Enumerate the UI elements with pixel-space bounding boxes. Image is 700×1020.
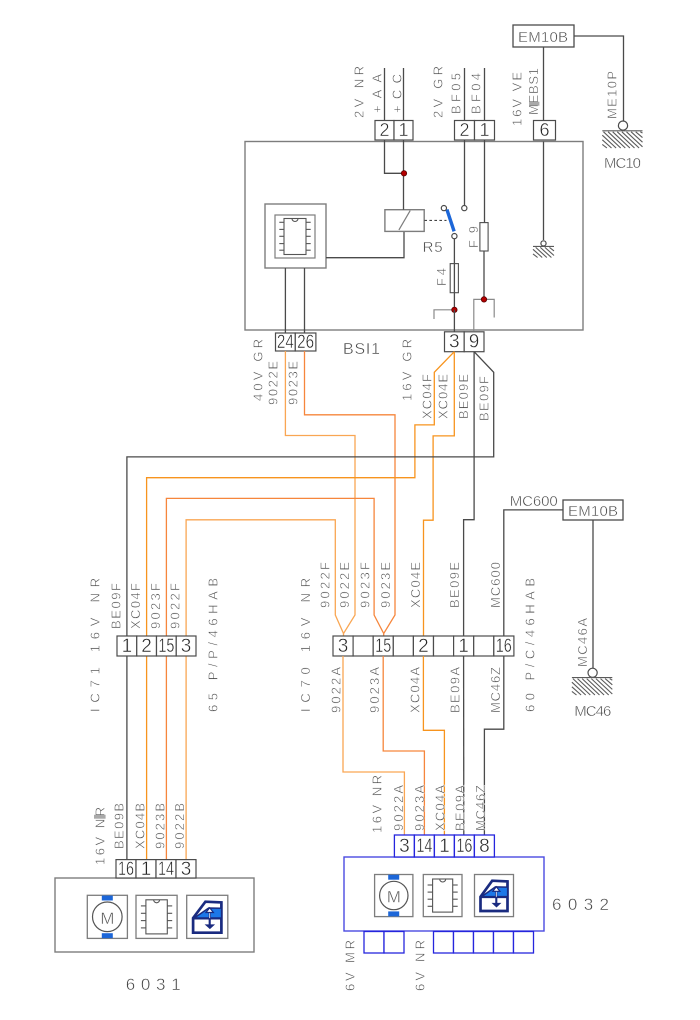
window-lift module 6031 box: [55, 878, 254, 952]
bridge link at F9 node: [474, 299, 494, 331]
BSI pin 26 box: [295, 333, 316, 351]
svg-text:15: 15: [158, 636, 174, 657]
motor icon (6032): [375, 875, 413, 917]
svg-text:9023F: 9023F: [358, 562, 373, 608]
switch R5 contact left: [441, 206, 446, 211]
wire stub +CC: [403, 68, 405, 121]
switch R5 contact bottom: [452, 234, 457, 239]
svg-text:9023E: 9023E: [378, 562, 393, 608]
svg-text:8: 8: [479, 836, 490, 857]
svg-text:15: 15: [375, 636, 391, 657]
wire MC46A: [592, 520, 594, 669]
wire stub BF05: [464, 68, 466, 121]
svg-text:XC04A: XC04A: [433, 785, 448, 831]
svg-text:9022F: 9022F: [168, 583, 183, 629]
wire ME10P: [574, 36, 624, 121]
wire F9 to node: [483, 251, 485, 299]
BSI pin 3 box: [445, 332, 465, 352]
svg-text:XC04E: XC04E: [436, 374, 451, 419]
svg-text:R5: R5: [423, 239, 443, 256]
wire 9023E: [305, 351, 396, 636]
wire MEBS1 to EM10B: [543, 47, 545, 121]
svg-text:9022A: 9022A: [329, 667, 344, 713]
svg-text:BE09E: BE09E: [456, 374, 471, 419]
svg-text:6 0 3 1: 6 0 3 1: [126, 975, 181, 994]
svg-text:16: 16: [496, 636, 512, 657]
svg-text:9022E: 9022E: [337, 562, 352, 608]
svg-text:9023A: 9023A: [412, 785, 427, 831]
window-lift module 6032 box: [344, 857, 544, 931]
svg-text:MEBS1: MEBS1: [526, 68, 541, 115]
ground eyelet internal: [541, 241, 546, 246]
wire XC04A: [423, 656, 444, 835]
ground MC46: [572, 678, 612, 695]
svg-text:EM10B: EM10B: [568, 503, 618, 520]
svg-text:16: 16: [118, 859, 134, 880]
connector 6032 lower tabs group 1: [364, 932, 404, 954]
BSI pin 24 box: [276, 333, 296, 351]
svg-text:XC04B: XC04B: [132, 803, 147, 849]
wire BF05 to switch: [464, 140, 466, 205]
svg-text:1: 1: [458, 636, 469, 657]
wire stub +AA: [384, 68, 386, 121]
svg-text:9022F: 9022F: [318, 562, 333, 608]
ground eyelet MC10: [618, 121, 627, 130]
svg-text:BSI1: BSI1: [343, 341, 380, 358]
junction node F9: [481, 297, 486, 302]
svg-text:9022B: 9022B: [172, 803, 187, 849]
svg-text:9: 9: [469, 332, 480, 353]
svg-text:BE09A: BE09A: [453, 785, 468, 831]
fuse F9: [480, 223, 488, 251]
svg-text:9023B: 9023B: [152, 803, 167, 849]
switch R5 blue bar: [447, 210, 454, 232]
scan artifact near 16V NR (6031): [94, 815, 106, 819]
wire XC04B: [146, 656, 148, 860]
electronics icon (6032): [423, 875, 462, 917]
connector 6032 pins body: [394, 835, 494, 857]
wire 9022A: [343, 656, 404, 835]
wire BE09A: [463, 656, 465, 835]
svg-text:1: 1: [122, 636, 133, 657]
BSI internal IC DIP package: [279, 219, 310, 255]
svg-text:16: 16: [456, 836, 472, 857]
splice EM10B: [513, 25, 574, 47]
svg-text:6 0 3 2: 6 0 3 2: [552, 895, 609, 914]
switch R5 contact right: [462, 206, 467, 211]
connector IC70 body: [333, 636, 514, 656]
wire XC04F: [147, 352, 455, 636]
wire 9023A: [383, 656, 424, 835]
svg-text:MC10: MC10: [604, 155, 641, 172]
svg-text:BE09F: BE09F: [477, 376, 492, 421]
window-lift icon (6031): [187, 895, 228, 938]
svg-text:1: 1: [398, 120, 408, 140]
svg-text:BE09F: BE09F: [109, 583, 124, 629]
window-lift icon (6032): [475, 875, 514, 917]
wire MC600: [504, 510, 563, 636]
svg-text:MC46A: MC46A: [575, 618, 590, 667]
svg-text:6: 6: [539, 120, 549, 140]
ground MEBS1 internal: [533, 246, 554, 257]
svg-text:MC46Z: MC46Z: [488, 667, 503, 713]
junction node relay feed: [401, 171, 406, 176]
svg-text:XC04F: XC04F: [420, 374, 435, 419]
svg-text:2: 2: [379, 120, 389, 140]
svg-text:+AA: +AA: [370, 74, 385, 113]
relay R5 coil diagonal: [399, 211, 410, 230]
wire BE09B: [126, 656, 128, 860]
svg-text:XC04A: XC04A: [408, 667, 423, 713]
bracket link at F4 node: [434, 310, 453, 319]
svg-text:XC04F: XC04F: [128, 583, 143, 629]
svg-text:24: 24: [277, 332, 294, 353]
svg-text:M: M: [100, 909, 114, 928]
svg-text:BE09B: BE09B: [112, 803, 127, 849]
svg-text:9023E: 9023E: [286, 361, 301, 405]
svg-text:14: 14: [158, 859, 174, 880]
svg-text:MC46Z: MC46Z: [473, 785, 488, 831]
svg-text:1: 1: [439, 836, 450, 857]
relay-switch link (dashed): [424, 219, 446, 221]
connector pin 6 (MEBS1): [534, 121, 556, 141]
junction node F4: [452, 307, 457, 312]
svg-text:26: 26: [297, 332, 314, 353]
connector IC71 body: [117, 636, 196, 656]
motor icon (6031): [87, 895, 127, 938]
wire BF04 to F9: [484, 140, 486, 223]
svg-text:EM10B: EM10B: [518, 29, 568, 46]
ground eyelet MC46: [588, 668, 597, 677]
electronics icon (6031): [136, 895, 177, 938]
svg-text:MC600: MC600: [510, 493, 558, 510]
wire 9022E: [285, 351, 355, 636]
relay R5 coil: [385, 210, 424, 232]
svg-text:M: M: [387, 888, 401, 907]
svg-text:1: 1: [141, 859, 152, 880]
wire +CC to relay: [403, 140, 405, 210]
svg-text:3: 3: [399, 836, 410, 857]
svg-text:9022A: 9022A: [391, 785, 406, 831]
svg-text:MC46: MC46: [574, 703, 611, 720]
connector pin 2 (+AA): [375, 121, 394, 141]
svg-text:9023F: 9023F: [148, 583, 163, 629]
wire IC to pin 24: [284, 268, 286, 333]
svg-text:2: 2: [459, 120, 469, 140]
BSI pin 9 box: [464, 332, 484, 352]
connector pin 1 (BF04): [475, 121, 495, 141]
wire F4 to pin 3: [453, 310, 455, 332]
svg-text:1: 1: [479, 120, 489, 140]
connector 6031 pins body: [116, 860, 196, 878]
wire 9023F: [166, 498, 383, 636]
ground MC10: [602, 131, 642, 148]
svg-text:9022E: 9022E: [266, 361, 281, 405]
fuse F4: [450, 264, 458, 293]
svg-text:3: 3: [449, 332, 460, 353]
svg-text:2: 2: [418, 636, 429, 657]
svg-text:BE09E: BE09E: [447, 562, 462, 608]
svg-text:+CC: +CC: [390, 74, 405, 113]
connector 6032 lower tabs group 2: [434, 932, 534, 954]
wire 9022F: [186, 520, 343, 636]
wire BE09E: [464, 352, 475, 636]
connector pin 1 (+CC): [394, 121, 413, 141]
svg-text:ME10P: ME10P: [605, 71, 620, 119]
wire stub BF04: [484, 68, 486, 121]
wire 9022B: [185, 656, 187, 860]
svg-text:BE09A: BE09A: [448, 667, 463, 713]
svg-text:3: 3: [181, 636, 192, 657]
svg-text:3: 3: [181, 859, 192, 880]
wire BE09F: [127, 352, 494, 636]
wire IC to relay: [326, 231, 404, 257]
BSI internal IC inner box: [275, 215, 315, 258]
wire XC04E: [424, 352, 455, 636]
svg-text:2: 2: [141, 636, 152, 657]
wire IC to pin 26: [304, 268, 306, 333]
connector pin 2 (BF05): [455, 121, 475, 141]
BSI internal IC outer box: [265, 204, 326, 268]
svg-text:9023A: 9023A: [367, 667, 382, 713]
wire 9023B: [165, 656, 167, 860]
wire MC46Z: [484, 656, 503, 835]
svg-text:MC600: MC600: [488, 562, 503, 608]
splice EM10B (MC600): [563, 500, 623, 520]
wire +AA to node: [385, 140, 404, 173]
svg-text:3: 3: [338, 636, 349, 657]
scan artifact near MEBS1: [529, 102, 539, 106]
svg-text:XC04E: XC04E: [408, 562, 423, 608]
BSI1 control unit box: [245, 142, 583, 331]
wire switch to F4: [453, 239, 455, 310]
wire MEBS1 internal ground: [543, 142, 545, 241]
svg-text:14: 14: [416, 836, 432, 857]
